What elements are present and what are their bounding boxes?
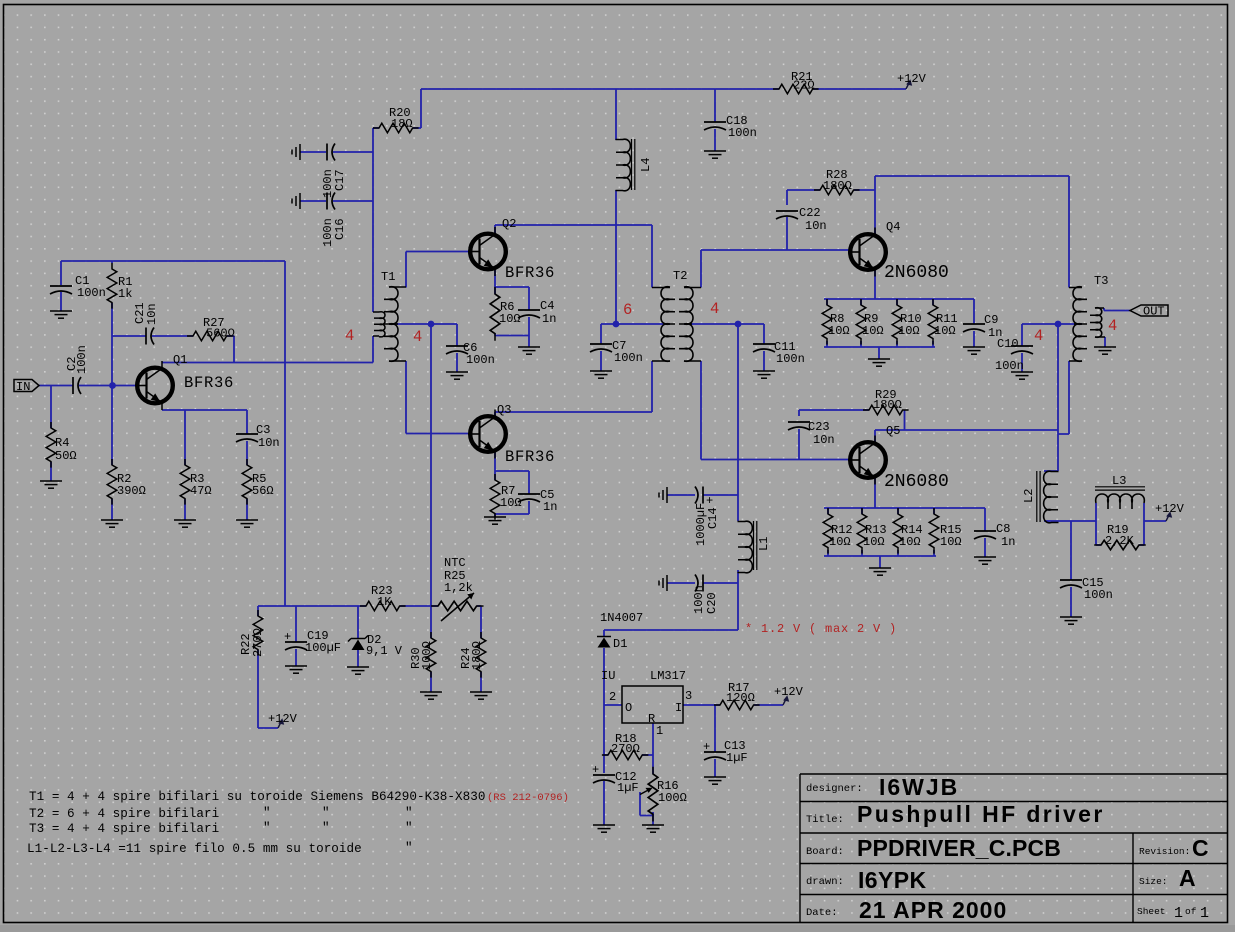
wire Q1 emitter rail	[162, 409, 247, 411]
svg-text:T1 = 4 + 4 spire bifilari su t: T1 = 4 + 4 spire bifilari su toroide Sie…	[29, 790, 485, 804]
resistor R24	[459, 632, 486, 678]
wire Q3 collector to T2	[495, 361, 652, 418]
svg-text:10Ω: 10Ω	[899, 535, 921, 549]
resistor R14	[893, 508, 922, 554]
svg-text:100n: 100n	[692, 585, 706, 614]
resistor R29	[863, 388, 909, 415]
svg-text:10Ω: 10Ω	[499, 312, 521, 326]
capacitor C22	[776, 206, 827, 233]
port OUT	[1130, 305, 1168, 319]
wire T2 right center tap / C11 / L4 feed	[684, 324, 764, 521]
svg-text:": "	[405, 841, 413, 855]
svg-text:": "	[405, 806, 413, 820]
resistor R4	[46, 422, 76, 468]
ground C8	[974, 557, 996, 564]
wire bias rail	[258, 606, 481, 638]
capacitor C4	[518, 299, 556, 326]
capacitor C1	[50, 274, 106, 300]
wire Q2 emitter node	[495, 269, 529, 348]
svg-text:3: 3	[685, 689, 692, 703]
wire rail drop to bias rail	[284, 261, 286, 606]
svg-text:1n: 1n	[542, 312, 556, 326]
capacitor C11	[753, 340, 805, 366]
svg-text:18Ω: 18Ω	[391, 117, 413, 131]
svg-text:(RS 212-0796): (RS 212-0796)	[487, 792, 569, 804]
resistor R13	[857, 508, 886, 554]
ground C11	[753, 371, 775, 378]
wire LM317 pin3 node	[683, 705, 783, 777]
junction T3 tap	[1055, 321, 1062, 328]
svg-text:4: 4	[710, 300, 720, 318]
svg-text:": "	[263, 821, 271, 835]
wire T2 right bottom to Q5 base	[701, 361, 851, 460]
svg-text:Pushpull HF driver: Pushpull HF driver	[857, 801, 1105, 827]
ground C13	[704, 777, 726, 784]
ground C16	[292, 193, 300, 209]
svg-text:": "	[322, 806, 330, 820]
ground bank2	[869, 568, 891, 575]
resistor R17	[714, 681, 760, 710]
ground T3 right	[1094, 347, 1116, 354]
junction T2 left tap	[613, 321, 620, 328]
ground C10	[1011, 372, 1033, 379]
svg-text:OUT: OUT	[1143, 305, 1165, 319]
svg-text:100Ω: 100Ω	[420, 641, 434, 670]
svg-text:100n: 100n	[995, 359, 1024, 373]
ground C6	[446, 372, 468, 379]
svg-text:4: 4	[1034, 327, 1044, 345]
resistor R5	[242, 459, 273, 505]
svg-text:10n: 10n	[145, 303, 159, 325]
resistor R16 variable	[640, 767, 687, 822]
junction base node	[109, 382, 116, 389]
ground R7	[484, 517, 506, 524]
transistor Q1	[135, 353, 234, 410]
svg-text:C17: C17	[333, 169, 347, 191]
wire top +12V rail	[421, 88, 906, 90]
svg-text:6: 6	[623, 301, 633, 319]
capacitor C18	[704, 114, 757, 140]
svg-text:1: 1	[656, 724, 663, 738]
transformer T1	[373, 270, 406, 361]
svg-text:C3: C3	[256, 423, 270, 437]
svg-text:C23: C23	[808, 420, 830, 434]
svg-text:Title:: Title:	[806, 814, 844, 826]
capacitor C9	[963, 313, 1002, 340]
ground R3	[174, 520, 196, 527]
resistor R1	[107, 263, 132, 309]
svg-text:O: O	[625, 701, 632, 715]
svg-text:10Ω: 10Ω	[898, 324, 920, 338]
wire L3/R19 block rails	[1096, 503, 1166, 545]
wire T1 sec top to Q2 base	[406, 252, 471, 288]
wire IN to base	[39, 385, 138, 387]
svg-text:C10: C10	[997, 337, 1019, 351]
wire R30 column	[430, 606, 432, 692]
ground R24	[470, 692, 492, 699]
ground D2	[347, 667, 369, 674]
svg-text:IN: IN	[16, 380, 30, 394]
svg-text:Q4: Q4	[886, 220, 900, 234]
svg-text:10Ω: 10Ω	[863, 535, 885, 549]
transistor Q4	[848, 220, 949, 283]
wire C18 leads	[714, 89, 716, 151]
svg-text:L4: L4	[639, 158, 653, 172]
wire R22 column to +12V	[258, 606, 278, 728]
wire Q1 collector to T1	[162, 336, 373, 363]
svg-text:4: 4	[345, 327, 355, 345]
ground C12	[593, 825, 615, 832]
inductor L1	[738, 521, 772, 573]
capacitor C21	[133, 302, 159, 344]
ground R2	[101, 520, 123, 527]
wire C1 leads	[60, 261, 62, 311]
wire T2 left center tap to C7	[601, 324, 670, 371]
resistor R28	[814, 168, 860, 195]
wire Q4 emitter to bank1	[874, 269, 876, 299]
wire T1 primary top to R20/C16/C17	[300, 128, 373, 312]
svg-text:PPDRIVER_C.PCB: PPDRIVER_C.PCB	[857, 835, 1061, 861]
svg-text:A: A	[1179, 865, 1196, 891]
svg-text:1µF: 1µF	[726, 751, 748, 765]
svg-text:10Ω: 10Ω	[829, 535, 851, 549]
resistor R9	[856, 299, 883, 345]
wire L4 column	[615, 89, 617, 324]
svg-text:D1: D1	[613, 637, 627, 651]
svg-text:10Ω: 10Ω	[500, 496, 522, 510]
resistor R21	[773, 70, 819, 94]
svg-text:Date:: Date:	[806, 907, 838, 919]
diode D1 1N4007	[597, 611, 643, 651]
svg-text:designer:: designer:	[806, 783, 863, 795]
wire C22/R28/Q4 collector	[787, 176, 1069, 250]
power +12V right	[1155, 502, 1185, 521]
svg-text:R4: R4	[55, 436, 69, 450]
svg-text:drawn:: drawn:	[806, 876, 844, 888]
wire C23/R29	[799, 410, 905, 460]
svg-text:1K: 1K	[377, 595, 392, 609]
ground C9	[963, 347, 985, 354]
svg-text:180Ω: 180Ω	[470, 641, 484, 670]
ground C18	[704, 151, 726, 158]
svg-text:T2: T2	[673, 269, 687, 283]
svg-text:C9: C9	[984, 313, 998, 327]
svg-text:I: I	[675, 701, 682, 715]
svg-text:Q1: Q1	[173, 353, 187, 367]
capacitor C17	[321, 144, 347, 199]
wire bias feed to D1	[604, 629, 738, 631]
wire T3 left bottom jog to L2	[1058, 361, 1069, 471]
transformer T2	[652, 269, 701, 361]
svg-text:100n: 100n	[614, 351, 643, 365]
transformer T3	[1069, 274, 1108, 361]
svg-text:50Ω: 50Ω	[55, 449, 77, 463]
svg-text:T1: T1	[381, 270, 395, 284]
svg-text:C14: C14	[706, 507, 720, 529]
svg-text:2N6080: 2N6080	[884, 472, 949, 492]
svg-text:Board:: Board:	[806, 846, 844, 858]
svg-text:+12V: +12V	[1155, 502, 1185, 516]
wire D2 leads	[357, 606, 359, 667]
resistor R6	[490, 287, 520, 341]
inductor L3	[1095, 474, 1145, 509]
svg-text:100n: 100n	[75, 345, 89, 374]
svg-text:C4: C4	[540, 299, 554, 313]
svg-text:I6WJB: I6WJB	[879, 774, 959, 800]
port IN	[14, 380, 39, 395]
resistor R12	[823, 508, 852, 554]
svg-text:Q3: Q3	[497, 403, 511, 417]
wire T3 left top	[1068, 176, 1070, 288]
svg-text:10n: 10n	[258, 436, 280, 450]
svg-text:1: 1	[1200, 905, 1209, 922]
svg-text:56Ω: 56Ω	[252, 484, 274, 498]
wire bank1 rails	[824, 299, 974, 359]
svg-text:L1-L2-L3-L4 =11 spire filo 0.5: L1-L2-L3-L4 =11 spire filo 0.5 mm su tor…	[27, 842, 362, 856]
svg-text:C20: C20	[705, 592, 719, 614]
svg-text:180Ω: 180Ω	[873, 398, 902, 412]
svg-text:2,2K: 2,2K	[1105, 534, 1135, 548]
svg-text:10n: 10n	[805, 219, 827, 233]
junction T1 tap	[428, 321, 435, 328]
svg-text:+12V: +12V	[268, 712, 298, 726]
wire R24 column	[480, 672, 482, 692]
svg-text:1: 1	[1174, 905, 1183, 922]
svg-text:Q5: Q5	[886, 424, 900, 438]
ground C14	[659, 487, 667, 503]
wire R18 to pin1	[604, 754, 653, 756]
svg-text:BFR36: BFR36	[505, 448, 555, 466]
capacitor C10	[995, 337, 1033, 373]
wire T1 sec bottom to Q3 base	[406, 361, 471, 434]
svg-text:Q2: Q2	[502, 217, 516, 231]
resistor R15	[929, 508, 961, 554]
svg-text:": "	[405, 821, 413, 835]
wire C21-R27 branch	[112, 336, 234, 363]
svg-text:4: 4	[413, 328, 423, 346]
ground C4	[518, 347, 540, 354]
inductor L2	[1022, 471, 1059, 523]
power +12V LM317	[774, 685, 804, 705]
svg-text:560Ω: 560Ω	[206, 327, 235, 341]
resistor R22	[239, 610, 265, 657]
wire C19 leads	[295, 606, 297, 666]
svg-text:1µF: 1µF	[617, 781, 639, 795]
transistor Q5	[848, 424, 949, 492]
wire T1 center tap to C6 and bias	[389, 324, 457, 606]
wire Q2 collector to T2	[495, 225, 652, 288]
svg-text:+: +	[703, 740, 710, 754]
wire T3 center tap / C10	[1022, 324, 1082, 430]
svg-text:* 1.2 V ( max 2 V ): * 1.2 V ( max 2 V )	[745, 622, 897, 636]
svg-text:L3: L3	[1112, 474, 1126, 488]
svg-text:2N6080: 2N6080	[884, 263, 949, 283]
svg-text:": "	[263, 806, 271, 820]
svg-text:IU: IU	[601, 669, 615, 683]
resistor R10	[892, 299, 921, 345]
resistor R19	[1094, 523, 1146, 550]
svg-text:100Ω: 100Ω	[658, 791, 687, 805]
capacitor C8	[974, 522, 1015, 549]
capacitor C19 polarized	[284, 629, 341, 655]
ground bank1	[868, 359, 890, 366]
ground C20	[659, 575, 667, 591]
svg-text:+: +	[592, 763, 599, 777]
svg-text:4: 4	[1108, 317, 1118, 335]
svg-text:NTC: NTC	[444, 556, 466, 570]
diode D2 zener	[348, 633, 403, 658]
svg-text:270Ω: 270Ω	[611, 742, 640, 756]
svg-text:+12V: +12V	[897, 72, 927, 86]
svg-text:of: of	[1185, 906, 1197, 917]
resistor R18	[602, 732, 649, 760]
ground C7	[590, 371, 612, 378]
svg-text:100n: 100n	[1084, 588, 1113, 602]
ground C17	[292, 144, 300, 160]
svg-text:10Ω: 10Ω	[940, 535, 962, 549]
svg-text:100µF: 100µF	[305, 641, 341, 655]
wire C14/L1/C20 column	[667, 495, 738, 630]
wire T3 right bottom to ground	[1104, 337, 1106, 347]
wire R3 column	[184, 410, 186, 520]
capacitor C6	[446, 341, 495, 367]
svg-text:R: R	[648, 712, 655, 726]
resistor R11	[928, 299, 957, 345]
resistor R25 NTC	[431, 556, 483, 621]
svg-text:47Ω: 47Ω	[190, 484, 212, 498]
svg-text:C22: C22	[799, 206, 821, 220]
resistor R8	[822, 299, 849, 345]
svg-text:": "	[322, 821, 330, 835]
wire Q3 emitter node	[495, 451, 529, 517]
svg-text:+: +	[284, 630, 291, 644]
capacitor C5	[518, 488, 557, 514]
svg-text:100n: 100n	[728, 126, 757, 140]
svg-text:10Ω: 10Ω	[828, 324, 850, 338]
wire top-left +12V rail	[61, 260, 285, 262]
svg-text:+12V: +12V	[774, 685, 804, 699]
svg-text:Size:: Size:	[1139, 876, 1168, 887]
transistor Q3	[468, 403, 555, 466]
power +12V top right	[897, 72, 927, 89]
wire C9 leads	[973, 299, 975, 347]
capacitor C15	[1060, 576, 1113, 602]
svg-text:390Ω: 390Ω	[117, 484, 146, 498]
svg-text:C8: C8	[996, 522, 1010, 536]
capacitor C13 polarized	[703, 739, 748, 765]
wire T2 right top to Q4 base	[701, 250, 851, 288]
svg-text:1,2k: 1,2k	[444, 581, 473, 595]
svg-text:1k: 1k	[118, 287, 132, 301]
svg-text:10Ω: 10Ω	[934, 324, 956, 338]
ground C1	[50, 311, 72, 318]
wire R1/R2 column	[111, 261, 113, 520]
svg-text:LM317: LM317	[650, 669, 686, 683]
ground R5	[236, 520, 258, 527]
svg-text:1n: 1n	[543, 500, 557, 514]
capacitor C2	[65, 345, 89, 394]
wire R4 column	[50, 386, 52, 482]
svg-text:I6YPK: I6YPK	[858, 867, 926, 893]
svg-text:L2: L2	[1022, 489, 1036, 503]
svg-text:1n: 1n	[1001, 535, 1015, 549]
svg-text:C: C	[1192, 835, 1209, 861]
wire R20 to top rail	[373, 89, 421, 128]
ground R4	[40, 481, 62, 488]
svg-text:C16: C16	[333, 218, 347, 240]
svg-text:22Ω: 22Ω	[793, 79, 815, 93]
svg-text:T2 = 6 + 4 spire bifilari: T2 = 6 + 4 spire bifilari	[29, 807, 219, 821]
capacitor C7	[590, 339, 643, 365]
wire L2 column and C15	[1044, 471, 1096, 617]
wire C3/R5 column	[246, 410, 248, 520]
svg-text:100n: 100n	[776, 352, 805, 366]
inductor L4	[616, 139, 654, 191]
capacitor C12 polarized	[592, 763, 639, 795]
power +12V bias	[268, 712, 298, 728]
svg-text:BFR36: BFR36	[505, 264, 555, 282]
ground C15	[1060, 617, 1082, 624]
wire bank2 rails	[824, 508, 985, 568]
svg-text:270Ω: 270Ω	[251, 628, 265, 657]
resistor R27	[187, 316, 235, 341]
wire C8 leads	[984, 508, 986, 557]
IC U1 LM317	[601, 669, 692, 738]
svg-text:9,1 V: 9,1 V	[366, 644, 403, 658]
ground C19	[285, 666, 307, 673]
wire R16 wiper loop and ground lead	[640, 792, 653, 825]
ground R16	[642, 825, 664, 832]
wire Q5 collector to T3 node	[875, 430, 1058, 443]
svg-text:21 APR 2000: 21 APR 2000	[859, 897, 1007, 923]
svg-text:Sheet: Sheet	[1137, 906, 1166, 917]
title block grid	[800, 774, 1228, 923]
resistor R30	[409, 632, 436, 678]
wire D1/LM317 column	[604, 630, 622, 825]
resistor R7	[490, 474, 521, 520]
capacitor C3	[236, 423, 280, 450]
wire Q5 emitter to bank2	[874, 477, 876, 508]
capacitor C20	[692, 575, 719, 615]
svg-text:1N4007: 1N4007	[600, 611, 643, 625]
capacitor C23	[788, 420, 835, 447]
resistor R3	[180, 459, 211, 505]
capacitor C16	[321, 193, 347, 248]
wire OUT	[1104, 308, 1130, 311]
resistor R20	[373, 106, 419, 133]
svg-text:100n: 100n	[77, 286, 106, 300]
svg-text:Revision:: Revision:	[1139, 846, 1190, 857]
junction T2 right tap	[735, 321, 742, 328]
svg-text:10Ω: 10Ω	[862, 324, 884, 338]
resistor R23	[360, 584, 406, 611]
svg-text:BFR36: BFR36	[184, 374, 234, 392]
ground R30	[420, 692, 442, 699]
wire L1 hooks	[737, 521, 739, 570]
capacitor C14 polarized	[694, 487, 720, 547]
svg-text:L1: L1	[757, 537, 771, 551]
svg-text:120Ω: 120Ω	[726, 691, 755, 705]
svg-text:T3 = 4 + 4 spire bifilari: T3 = 4 + 4 spire bifilari	[29, 822, 219, 836]
resistor R2	[107, 459, 146, 505]
svg-text:100n: 100n	[466, 353, 495, 367]
svg-text:T3: T3	[1094, 274, 1108, 288]
svg-text:2: 2	[609, 690, 616, 704]
svg-text:180Ω: 180Ω	[823, 179, 852, 193]
wire LM317 pin1 to R16	[652, 723, 654, 774]
svg-text:10n: 10n	[813, 433, 835, 447]
transistor Q2	[468, 217, 555, 282]
